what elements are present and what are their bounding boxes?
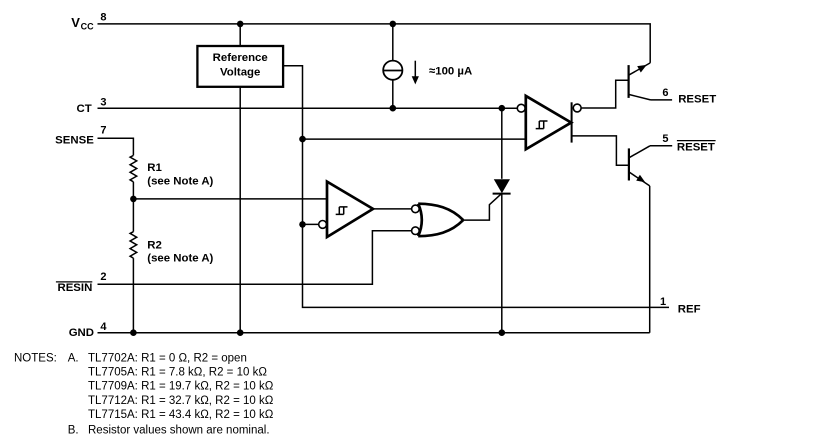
svg-text:B.: B. <box>68 425 79 437</box>
svg-text:R2: R2 <box>147 239 162 251</box>
pin RESIN label <box>57 282 92 294</box>
wire RESET pin 6 <box>651 99 673 101</box>
pin VCC label <box>71 15 94 31</box>
svg-text:6: 6 <box>662 87 668 99</box>
transistor Q2 emitter diagonal <box>629 172 650 186</box>
svg-text:A.: A. <box>68 352 79 364</box>
block Reference Voltage <box>197 46 283 87</box>
wire R2 to GND <box>132 258 134 333</box>
arrow current direction <box>414 61 416 78</box>
output bubble U1 <box>573 104 581 112</box>
transistor Q1 emitter diagonal <box>629 94 651 100</box>
svg-text:≈100 µA: ≈100 µA <box>429 65 472 77</box>
wire reference output <box>283 66 669 308</box>
node CT-current-source junction <box>390 105 397 112</box>
svg-text:RESET: RESET <box>677 142 715 154</box>
wire U2 output to OR gate <box>373 208 412 210</box>
hysteresis symbol U1 <box>536 121 548 129</box>
current source I1 circle <box>383 61 402 80</box>
node divider tap <box>130 196 137 203</box>
svg-text:TL7709A: R1 = 19.7 kΩ, R2 = 10: TL7709A: R1 = 19.7 kΩ, R2 = 10 kΩ <box>88 381 274 393</box>
input bubble U1 <box>517 104 525 112</box>
OR gate U3 input bubble top <box>412 205 420 213</box>
node R2-GND junction <box>130 329 137 336</box>
svg-text:CC: CC <box>81 21 94 31</box>
svg-text:(see Note A): (see Note A) <box>147 253 213 265</box>
comparator U1 (upper) <box>526 96 571 149</box>
overline RESIN <box>56 281 92 283</box>
transistor Q1 collector diagonal <box>629 63 651 75</box>
transistor Q2 base bar <box>628 148 630 180</box>
thyristor anode triangle <box>494 179 510 193</box>
svg-text:8: 8 <box>100 11 106 23</box>
node ref-lower-comp junction <box>299 221 306 228</box>
transistor Q2 arrow <box>636 175 645 183</box>
svg-text:Voltage: Voltage <box>220 66 260 78</box>
node ref-upper-comp junction <box>299 136 306 143</box>
svg-text:2: 2 <box>100 271 106 283</box>
wire GND rail <box>98 332 650 334</box>
svg-text:GND: GND <box>69 327 94 339</box>
comparator U2 (lower) <box>327 182 373 237</box>
wire U1 output to Q2 base <box>572 136 629 165</box>
svg-text:NOTES:: NOTES: <box>14 352 57 364</box>
notes text <box>14 352 274 436</box>
wire thyristor cathode to GND <box>501 194 503 333</box>
current source I1 wire to CT <box>392 80 394 108</box>
wire R1 to node <box>132 182 134 232</box>
input bubble U2 <box>319 221 327 229</box>
svg-text:1: 1 <box>660 296 666 308</box>
wire U1 inverted output to Q1 base <box>581 80 628 108</box>
wire ref to lower comparator bubble <box>303 223 319 225</box>
output bar U1 <box>571 102 573 142</box>
transistor Q2 collector diagonal <box>629 146 650 158</box>
hysteresis symbol U2 <box>336 207 348 215</box>
svg-text:REF: REF <box>678 304 701 316</box>
svg-text:TL7705A: R1 = 7.8 kΩ, R2 = 10: TL7705A: R1 = 7.8 kΩ, R2 = 10 kΩ <box>88 367 267 379</box>
transistor Q1 arrow <box>637 65 647 73</box>
node CT-thyristor junction <box>499 105 506 112</box>
transistor Q1 base bar <box>627 65 629 98</box>
wire Q2 emitter to GND <box>649 186 651 333</box>
svg-text:3: 3 <box>100 97 106 109</box>
svg-text:R1: R1 <box>147 162 162 174</box>
resistor R1 <box>130 155 137 181</box>
svg-text:TL7715A: R1 = 43.4 kΩ, R2 = 10: TL7715A: R1 = 43.4 kΩ, R2 = 10 kΩ <box>88 409 274 421</box>
svg-text:CT: CT <box>77 103 92 115</box>
wire SENSE to R1 <box>98 138 134 155</box>
OR gate U3 input bubble bottom <box>412 227 420 235</box>
svg-text:(see Note A): (see Note A) <box>147 176 213 188</box>
svg-text:4: 4 <box>100 321 107 333</box>
wire RESET-bar pin 5 <box>650 145 672 147</box>
svg-text:7: 7 <box>100 125 106 137</box>
label R1 <box>147 162 213 188</box>
wire thyristor anode <box>501 108 503 179</box>
node thyristor-GND junction <box>499 329 506 336</box>
wire OR output to thyristor gate <box>463 194 501 221</box>
svg-text:TL7712A: R1 = 32.7 kΩ, R2 = 10: TL7712A: R1 = 32.7 kΩ, R2 = 10 kΩ <box>88 395 274 407</box>
wire VCC to reference box <box>239 24 241 46</box>
wire reference box to GND <box>239 87 241 333</box>
wire ref to upper comparator input <box>303 138 526 140</box>
svg-text:TL7702A: R1 = 0 Ω, R2 = open: TL7702A: R1 = 0 Ω, R2 = open <box>88 352 247 364</box>
current source I1 wire from VCC <box>392 24 394 61</box>
svg-text:V: V <box>71 15 80 30</box>
svg-text:Reference: Reference <box>213 52 268 64</box>
svg-text:Resistor values shown are nomi: Resistor values shown are nominal. <box>88 425 270 437</box>
svg-text:5: 5 <box>662 133 668 145</box>
wire VCC rail <box>98 24 651 63</box>
node VCC-current-source junction <box>390 21 397 28</box>
thyristor cathode bar <box>493 193 511 195</box>
resistor R2 <box>130 232 137 258</box>
svg-text:SENSE: SENSE <box>55 135 94 147</box>
wire tap to comparator <box>133 198 327 200</box>
svg-text:RESIN: RESIN <box>57 282 92 294</box>
wire RESIN to OR gate <box>98 231 412 285</box>
label R2 <box>147 239 213 264</box>
node VCC-ref junction <box>237 21 244 28</box>
wire CT line <box>98 107 518 109</box>
OR gate U3 body <box>418 204 463 237</box>
svg-text:RESET: RESET <box>678 94 716 106</box>
overline RESET-bar <box>677 140 716 142</box>
node refbox-GND junction <box>237 329 244 336</box>
